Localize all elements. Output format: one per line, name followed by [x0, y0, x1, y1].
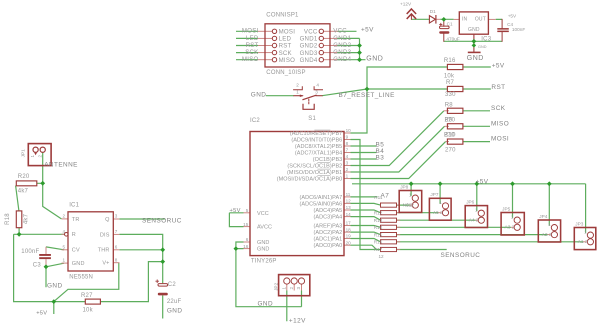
svg-text:GND: GND: [257, 247, 269, 253]
svg-text:JP6: JP6: [466, 199, 474, 204]
svg-text:A1: A1: [578, 239, 584, 244]
svg-text:JP4: JP4: [539, 214, 547, 219]
svg-text:3: 3: [115, 214, 118, 219]
svg-text:6: 6: [115, 244, 118, 249]
svg-text:1: 1: [511, 214, 514, 219]
svg-text:GND1: GND1: [300, 36, 318, 43]
svg-text:SCK: SCK: [279, 50, 292, 57]
svg-text:GND: GND: [258, 300, 274, 307]
svg-text:TR: TR: [72, 217, 80, 223]
svg-text:1: 1: [62, 258, 65, 263]
svg-text:5: 5: [246, 208, 249, 213]
svg-text:(ADC10/RESET)PB7: (ADC10/RESET)PB7: [290, 131, 342, 137]
svg-text:5: 5: [62, 244, 65, 249]
svg-text:470uF: 470uF: [446, 36, 459, 41]
svg-text:1: 1: [584, 229, 587, 234]
svg-text:+5V: +5V: [230, 208, 241, 214]
svg-text:GND2: GND2: [300, 43, 318, 50]
svg-text:R13: R13: [374, 218, 383, 223]
svg-text:R7: R7: [446, 80, 455, 86]
svg-text:R20: R20: [18, 174, 30, 180]
svg-text:A6: A6: [433, 210, 439, 215]
svg-text:JP5: JP5: [502, 206, 510, 211]
svg-text:+5V: +5V: [476, 178, 489, 185]
svg-text:270: 270: [445, 117, 456, 123]
svg-text:IC1: IC1: [69, 202, 79, 208]
svg-text:2: 2: [289, 287, 294, 290]
svg-text:10k: 10k: [83, 308, 94, 314]
svg-text:CONN_10ISP: CONN_10ISP: [266, 70, 305, 76]
svg-text:SENSORUC: SENSORUC: [441, 252, 481, 259]
svg-text:10: 10: [346, 128, 352, 133]
svg-text:18: 18: [346, 227, 352, 232]
svg-text:GND2: GND2: [333, 42, 351, 49]
svg-text:MISO: MISO: [242, 56, 259, 63]
svg-text:RST: RST: [491, 84, 505, 91]
svg-text:2: 2: [512, 225, 515, 230]
svg-text:2: 2: [440, 210, 443, 215]
svg-text:NE555N: NE555N: [69, 274, 93, 280]
svg-text:OUT: OUT: [475, 17, 486, 23]
svg-text:19: 19: [346, 234, 352, 239]
svg-text:(ADC4)PA5: (ADC4)PA5: [314, 208, 343, 214]
svg-text:9: 9: [346, 135, 349, 140]
svg-text:(ADC8/XTAL2)PB5: (ADC8/XTAL2)PB5: [295, 144, 342, 150]
svg-text:V+: V+: [102, 261, 109, 267]
svg-text:R8: R8: [445, 102, 454, 108]
svg-text:(ADC7/XTAL1)PB4: (ADC7/XTAL1)PB4: [295, 151, 342, 157]
svg-text:GND: GND: [366, 56, 383, 63]
svg-text:10k: 10k: [444, 74, 455, 80]
svg-text:C1: C1: [447, 22, 453, 27]
svg-text:1: 1: [296, 89, 299, 94]
svg-text:TINY26P: TINY26P: [251, 259, 277, 265]
svg-text:8: 8: [346, 141, 349, 146]
svg-text:(ADC9/INT0/T0)PB6: (ADC9/INT0/T0)PB6: [291, 138, 342, 144]
svg-text:+5V: +5V: [508, 14, 517, 19]
svg-text:2: 2: [549, 232, 552, 237]
svg-text:CONNISP1: CONNISP1: [266, 13, 299, 19]
svg-text:(OC1B)PB3: (OC1B)PB3: [313, 157, 343, 163]
svg-text:GND: GND: [251, 92, 267, 99]
svg-text:(ADC6/AIN1)PA7: (ADC6/AIN1)PA7: [300, 195, 343, 201]
svg-text:GND: GND: [47, 283, 63, 290]
svg-text:GND: GND: [257, 240, 269, 246]
svg-text:GND: GND: [468, 27, 480, 33]
svg-text:2: 2: [476, 217, 479, 222]
svg-text:1: 1: [548, 222, 551, 227]
svg-text:LED: LED: [279, 36, 292, 43]
svg-text:2: 2: [62, 214, 65, 219]
svg-text:A4: A4: [469, 217, 475, 222]
svg-text:+5V: +5V: [361, 26, 374, 33]
svg-text:VCC: VCC: [333, 28, 347, 35]
svg-text:(ADC5/AIN0)PA6: (ADC5/AIN0)PA6: [300, 201, 343, 207]
svg-text:270: 270: [445, 148, 456, 154]
svg-text:+5V: +5V: [36, 311, 47, 317]
svg-text:IC3: IC3: [481, 36, 491, 42]
svg-text:R11: R11: [374, 195, 383, 200]
svg-text:3: 3: [296, 287, 301, 290]
svg-text:1: 1: [475, 207, 478, 212]
svg-text:JP2: JP2: [274, 282, 279, 290]
svg-text:17: 17: [346, 221, 352, 226]
svg-text:15: 15: [243, 222, 249, 227]
svg-text:1: 1: [30, 155, 35, 158]
svg-text:1: 1: [346, 174, 349, 179]
svg-text:270: 270: [444, 133, 455, 139]
svg-text:16: 16: [243, 244, 249, 249]
svg-text:R: R: [72, 232, 76, 238]
svg-text:12: 12: [379, 254, 385, 259]
svg-text:RST: RST: [279, 43, 292, 50]
svg-text:100nF: 100nF: [21, 249, 39, 255]
svg-text:100nF: 100nF: [512, 27, 525, 32]
svg-text:GND3: GND3: [333, 49, 351, 56]
svg-text:6: 6: [246, 237, 249, 242]
svg-text:IN: IN: [462, 17, 468, 23]
svg-text:8: 8: [115, 257, 118, 262]
svg-text:S1: S1: [308, 116, 316, 122]
svg-text:CV: CV: [72, 248, 80, 254]
svg-text:IC2: IC2: [250, 118, 260, 124]
svg-text:(ADC1)PA1: (ADC1)PA1: [314, 237, 343, 243]
svg-text:JP7: JP7: [430, 192, 438, 197]
svg-text:(ADC0)PA0: (ADC0)PA0: [314, 243, 343, 249]
svg-text:R12: R12: [374, 210, 383, 215]
svg-text:MISO: MISO: [491, 120, 509, 127]
svg-text:14: 14: [346, 212, 352, 217]
svg-text:B7_RESET_LINE: B7_RESET_LINE: [339, 92, 395, 99]
svg-text:2: 2: [296, 82, 299, 87]
svg-text:1: 1: [439, 200, 442, 205]
svg-text:2: 2: [346, 167, 349, 172]
svg-text:GND4: GND4: [300, 57, 318, 64]
svg-text:MISO: MISO: [279, 57, 296, 64]
svg-text:R17: R17: [374, 247, 383, 252]
svg-text:VCC: VCC: [304, 29, 318, 36]
svg-text:MOSI: MOSI: [491, 136, 509, 143]
svg-text:GND: GND: [167, 307, 183, 314]
svg-text:GND3: GND3: [300, 50, 318, 57]
svg-text:R16: R16: [444, 58, 456, 64]
svg-text:4: 4: [346, 154, 349, 159]
svg-text:R14: R14: [374, 225, 383, 230]
svg-text:SENSORUC: SENSORUC: [142, 217, 182, 224]
svg-text:GND: GND: [478, 45, 487, 49]
svg-text:JP8: JP8: [400, 184, 408, 189]
svg-text:A2: A2: [542, 232, 548, 237]
svg-text:(MISO/DO/OC1A)PB1: (MISO/DO/OC1A)PB1: [287, 170, 342, 176]
svg-text:MOSI: MOSI: [279, 29, 296, 36]
svg-text:R18: R18: [5, 213, 11, 225]
svg-text:SCK: SCK: [245, 49, 258, 56]
svg-text:RST: RST: [246, 42, 259, 49]
svg-text:AVCC: AVCC: [257, 225, 272, 231]
svg-text:22uF: 22uF: [167, 299, 182, 305]
svg-text:12: 12: [346, 199, 352, 204]
svg-text:LED: LED: [246, 35, 259, 42]
svg-text:C3: C3: [33, 263, 42, 269]
svg-text:C2: C2: [168, 282, 177, 288]
svg-text:B3: B3: [376, 154, 385, 161]
svg-text:JP3: JP3: [575, 221, 583, 226]
svg-text:13: 13: [346, 205, 352, 210]
svg-text:SCK: SCK: [491, 105, 506, 112]
svg-text:MOSI: MOSI: [242, 28, 259, 35]
svg-text:D1: D1: [430, 9, 436, 14]
svg-text:Q: Q: [105, 217, 110, 223]
svg-text:4: 4: [62, 229, 65, 234]
svg-text:A3: A3: [505, 225, 511, 230]
svg-text:(ADC3)PA4: (ADC3)PA4: [314, 215, 343, 221]
svg-text:2: 2: [410, 202, 413, 207]
svg-text:(ADC2)PA2: (ADC2)PA2: [314, 230, 343, 236]
svg-text:2: 2: [37, 155, 42, 158]
svg-text:(MOSI/DI/SDA/OC1A)PB0: (MOSI/DI/SDA/OC1A)PB0: [277, 177, 343, 183]
svg-text:2: 2: [585, 239, 588, 244]
svg-text:R27: R27: [81, 293, 93, 299]
svg-text:R15: R15: [374, 232, 383, 237]
svg-text:JP1: JP1: [21, 149, 26, 157]
svg-text:+12V: +12V: [289, 317, 306, 324]
svg-text:ANTENNE: ANTENNE: [44, 162, 78, 169]
svg-text:GND: GND: [467, 55, 484, 62]
svg-text:7: 7: [115, 229, 118, 234]
svg-text:GND: GND: [72, 261, 85, 267]
svg-text:(AREF)PA3: (AREF)PA3: [314, 224, 343, 230]
svg-text:3: 3: [346, 161, 349, 166]
svg-text:N$12: N$12: [403, 202, 415, 207]
svg-text:4k7: 4k7: [23, 213, 29, 224]
svg-text:4k7: 4k7: [18, 189, 29, 195]
svg-text:4: 4: [316, 82, 319, 87]
svg-text:R16: R16: [374, 240, 383, 245]
svg-text:1: 1: [282, 287, 287, 290]
svg-text:11: 11: [346, 192, 351, 197]
svg-text:20: 20: [346, 240, 352, 245]
svg-text:3: 3: [315, 89, 318, 94]
svg-text:+12V: +12V: [400, 2, 412, 7]
svg-text:GND4: GND4: [333, 56, 351, 63]
svg-text:GND1: GND1: [333, 35, 351, 42]
svg-text:330: 330: [445, 92, 456, 98]
svg-text:1: 1: [409, 192, 412, 197]
svg-text:(SCK/SCL/OC1B)PB2: (SCK/SCL/OC1B)PB2: [287, 164, 342, 170]
svg-text:7: 7: [346, 148, 349, 153]
svg-text:+5V: +5V: [492, 62, 505, 69]
svg-text:DIS: DIS: [100, 232, 110, 238]
svg-text:THR: THR: [98, 248, 110, 254]
svg-text:VCC: VCC: [257, 211, 269, 217]
